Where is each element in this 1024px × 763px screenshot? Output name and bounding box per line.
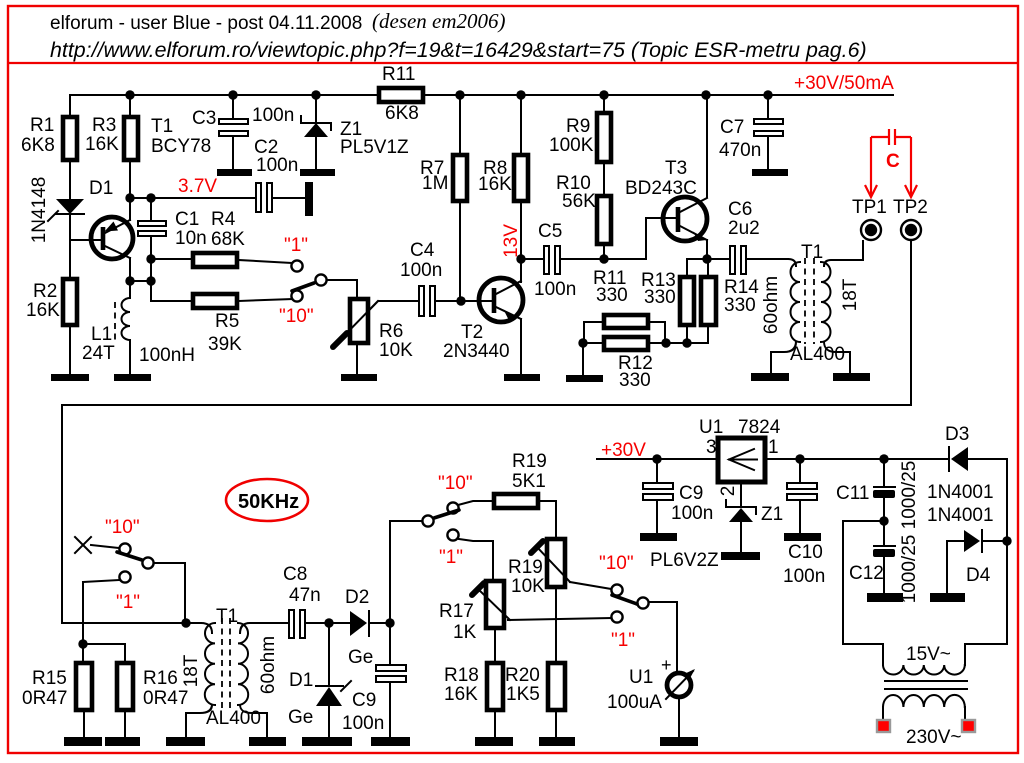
svg-text:T3: T3 bbox=[665, 158, 687, 179]
svg-text:TP2: TP2 bbox=[893, 197, 928, 218]
svg-text:3.7V: 3.7V bbox=[178, 176, 217, 197]
svg-text:(desen em2006): (desen em2006) bbox=[372, 9, 506, 33]
svg-text:R9: R9 bbox=[566, 116, 590, 137]
svg-text:C10: C10 bbox=[788, 542, 823, 563]
svg-text:1M: 1M bbox=[422, 173, 448, 194]
svg-text:39K: 39K bbox=[208, 334, 242, 355]
svg-text:470n: 470n bbox=[719, 140, 761, 161]
svg-text:U1: U1 bbox=[699, 417, 723, 438]
svg-text:+30V: +30V bbox=[601, 440, 646, 461]
svg-text:C12: C12 bbox=[849, 563, 884, 584]
svg-text:T1: T1 bbox=[801, 242, 823, 263]
svg-text:D1: D1 bbox=[289, 670, 313, 691]
svg-text:C5: C5 bbox=[538, 221, 562, 242]
svg-text:100nH: 100nH bbox=[139, 345, 195, 366]
svg-text:R6: R6 bbox=[379, 321, 403, 342]
svg-text:56K: 56K bbox=[562, 191, 596, 212]
svg-text:T1: T1 bbox=[216, 606, 238, 627]
svg-text:18T: 18T bbox=[181, 654, 202, 687]
svg-text:16K: 16K bbox=[444, 684, 478, 705]
svg-text:100n: 100n bbox=[252, 105, 294, 126]
svg-text:0R47: 0R47 bbox=[22, 688, 67, 709]
svg-text:TP1: TP1 bbox=[852, 197, 887, 218]
svg-text:24T: 24T bbox=[82, 343, 115, 364]
svg-text:BCY78: BCY78 bbox=[151, 136, 211, 157]
svg-text:"1": "1" bbox=[611, 630, 635, 651]
svg-text:http://www.elforum.ro/viewtopi: http://www.elforum.ro/viewtopic.php?f=19… bbox=[50, 38, 867, 62]
svg-text:100n: 100n bbox=[671, 503, 713, 524]
svg-text:R11: R11 bbox=[382, 64, 415, 85]
svg-text:R3: R3 bbox=[92, 115, 116, 136]
svg-text:1K: 1K bbox=[453, 622, 477, 643]
svg-text:C7: C7 bbox=[720, 117, 744, 138]
svg-text:U1: U1 bbox=[629, 667, 653, 688]
svg-text:6K8: 6K8 bbox=[21, 135, 55, 156]
svg-text:C1: C1 bbox=[175, 209, 199, 230]
svg-text:D1: D1 bbox=[89, 178, 113, 199]
svg-text:R18: R18 bbox=[444, 665, 479, 686]
svg-text:68K: 68K bbox=[211, 229, 245, 250]
svg-text:PL6V2Z: PL6V2Z bbox=[650, 550, 719, 571]
svg-text:D4: D4 bbox=[966, 565, 991, 586]
svg-text:"1": "1" bbox=[439, 547, 463, 568]
svg-text:+30V/50mA: +30V/50mA bbox=[794, 73, 894, 94]
svg-text:3: 3 bbox=[706, 437, 717, 458]
svg-text:C6: C6 bbox=[728, 199, 752, 220]
svg-text:R2: R2 bbox=[33, 281, 57, 302]
svg-text:10K: 10K bbox=[379, 340, 413, 361]
svg-text:60ohm: 60ohm bbox=[258, 636, 279, 694]
svg-text:R16: R16 bbox=[143, 668, 178, 689]
svg-text:16K: 16K bbox=[85, 134, 119, 155]
svg-text:C9: C9 bbox=[352, 690, 376, 711]
svg-text:T1: T1 bbox=[151, 116, 173, 137]
svg-text:50KHz: 50KHz bbox=[238, 491, 299, 513]
svg-text:R5: R5 bbox=[215, 311, 239, 332]
svg-text:Ge: Ge bbox=[348, 647, 373, 668]
svg-text:100n: 100n bbox=[256, 155, 298, 176]
svg-text:330: 330 bbox=[596, 285, 628, 306]
svg-text:C11: C11 bbox=[836, 483, 869, 504]
svg-text:1: 1 bbox=[768, 437, 779, 458]
svg-text:1000/25: 1000/25 bbox=[899, 535, 920, 604]
svg-text:AL400: AL400 bbox=[790, 344, 845, 365]
svg-text:AL400: AL400 bbox=[206, 708, 261, 729]
svg-text:100n: 100n bbox=[400, 260, 442, 281]
svg-text:1N4001: 1N4001 bbox=[927, 482, 994, 503]
svg-text:C: C bbox=[886, 151, 900, 172]
svg-text:60ohm: 60ohm bbox=[761, 276, 782, 334]
svg-text:T2: T2 bbox=[461, 322, 483, 343]
svg-text:BD243C: BD243C bbox=[625, 178, 697, 199]
svg-text:C4: C4 bbox=[410, 240, 435, 261]
svg-text:2u2: 2u2 bbox=[728, 218, 760, 239]
svg-text:1000/25: 1000/25 bbox=[899, 461, 920, 530]
svg-text:100uA: 100uA bbox=[607, 692, 662, 713]
svg-text:1N4148: 1N4148 bbox=[29, 177, 50, 244]
svg-text:"10": "10" bbox=[105, 517, 140, 538]
svg-text:5K1: 5K1 bbox=[512, 471, 546, 492]
svg-text:100n: 100n bbox=[534, 279, 576, 300]
svg-text:Z1: Z1 bbox=[761, 504, 783, 525]
svg-text:0R47: 0R47 bbox=[143, 688, 188, 709]
svg-text:2N3440: 2N3440 bbox=[443, 341, 510, 362]
svg-text:C3: C3 bbox=[192, 108, 216, 129]
svg-text:R19: R19 bbox=[508, 557, 543, 578]
svg-text:18T: 18T bbox=[840, 278, 861, 311]
svg-text:6K8: 6K8 bbox=[385, 103, 419, 124]
svg-text:330: 330 bbox=[644, 287, 676, 308]
svg-text:R19: R19 bbox=[512, 451, 547, 472]
svg-text:C8: C8 bbox=[283, 564, 307, 585]
svg-text:"1": "1" bbox=[116, 592, 140, 613]
svg-text:330: 330 bbox=[724, 295, 756, 316]
svg-text:10n: 10n bbox=[175, 228, 207, 249]
svg-text:15V~: 15V~ bbox=[906, 644, 951, 665]
svg-text:1K5: 1K5 bbox=[506, 684, 540, 705]
svg-text:47n: 47n bbox=[289, 585, 321, 606]
svg-text:230V~: 230V~ bbox=[906, 727, 961, 748]
svg-text:10K: 10K bbox=[511, 576, 545, 597]
svg-text:D3: D3 bbox=[945, 424, 969, 445]
svg-text:100n: 100n bbox=[342, 713, 384, 734]
svg-text:16K: 16K bbox=[478, 174, 512, 195]
svg-text:"1": "1" bbox=[284, 235, 308, 256]
svg-text:D2: D2 bbox=[345, 587, 369, 608]
svg-text:+: + bbox=[661, 655, 672, 675]
svg-text:1N4001: 1N4001 bbox=[927, 505, 994, 526]
svg-text:elforum - user Blue - post 04.: elforum - user Blue - post 04.11.2008 bbox=[50, 13, 362, 34]
svg-text:330: 330 bbox=[619, 370, 651, 391]
svg-text:R17: R17 bbox=[439, 601, 474, 622]
svg-text:Ge: Ge bbox=[288, 707, 313, 728]
svg-text:L1: L1 bbox=[91, 324, 112, 345]
svg-text:R4: R4 bbox=[211, 209, 236, 230]
svg-text:R15: R15 bbox=[32, 668, 67, 689]
svg-text:PL5V1Z: PL5V1Z bbox=[340, 137, 409, 158]
svg-text:16K: 16K bbox=[26, 300, 60, 321]
svg-text:2: 2 bbox=[718, 486, 739, 497]
svg-text:"10": "10" bbox=[279, 306, 314, 327]
svg-text:13V: 13V bbox=[501, 224, 522, 258]
svg-text:100K: 100K bbox=[549, 135, 594, 156]
svg-text:"10": "10" bbox=[599, 553, 634, 574]
svg-text:C9: C9 bbox=[679, 483, 703, 504]
svg-text:100n: 100n bbox=[783, 566, 825, 587]
svg-text:"10": "10" bbox=[438, 473, 473, 494]
svg-text:7824: 7824 bbox=[738, 417, 781, 438]
svg-text:R1: R1 bbox=[30, 115, 54, 136]
svg-text:R20: R20 bbox=[505, 665, 540, 686]
